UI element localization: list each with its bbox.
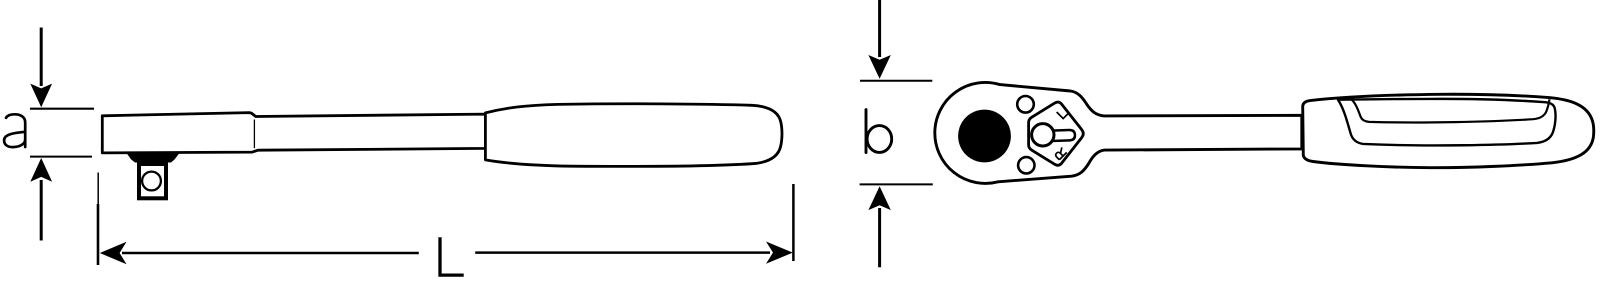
top view: handle grip inlay outline	[1338, 99, 1556, 146]
top view: selector shield plate	[1029, 102, 1084, 165]
top view: handle	[1303, 94, 1594, 167]
side view: square drive flange	[127, 153, 180, 163]
top view: handle grip seam line	[1352, 99, 1550, 122]
top view: lower screw hole	[1018, 157, 1034, 173]
dimension b: down arrow	[868, 0, 890, 79]
dimension a: upper extension line	[30, 108, 94, 110]
top view: drive square (black circle)	[958, 110, 1011, 163]
label a	[4, 114, 25, 147]
dimension b: up arrow	[868, 186, 890, 267]
top view: head and shaft body	[935, 82, 1302, 183]
side view: drive ball hole	[142, 172, 161, 191]
dimension L: left arrow segment	[100, 242, 419, 264]
side view: handle	[485, 104, 782, 167]
side view: head and shaft body	[102, 113, 485, 153]
dimension b: upper extension line	[860, 80, 932, 82]
label letter R on shield	[1054, 147, 1066, 159]
top view: selector lever ring	[1032, 124, 1054, 146]
dimension a: up arrow	[30, 158, 52, 241]
side view: square drive body	[139, 164, 166, 198]
side view: neck tick line	[253, 120, 255, 149]
dimension L: right extension line	[792, 184, 795, 261]
dimension a: down arrow	[30, 28, 52, 108]
label letter L on shield	[1057, 108, 1068, 119]
top view: selector lever handle	[1052, 130, 1076, 141]
dimension b: lower extension line	[860, 183, 933, 185]
label b	[866, 110, 892, 153]
label L	[440, 237, 464, 275]
top view: upper screw hole	[1017, 96, 1034, 113]
dimension L: left extension line	[97, 173, 99, 205]
dimension L: right arrow segment	[475, 242, 793, 264]
dimension a: lower extension line	[30, 156, 92, 158]
